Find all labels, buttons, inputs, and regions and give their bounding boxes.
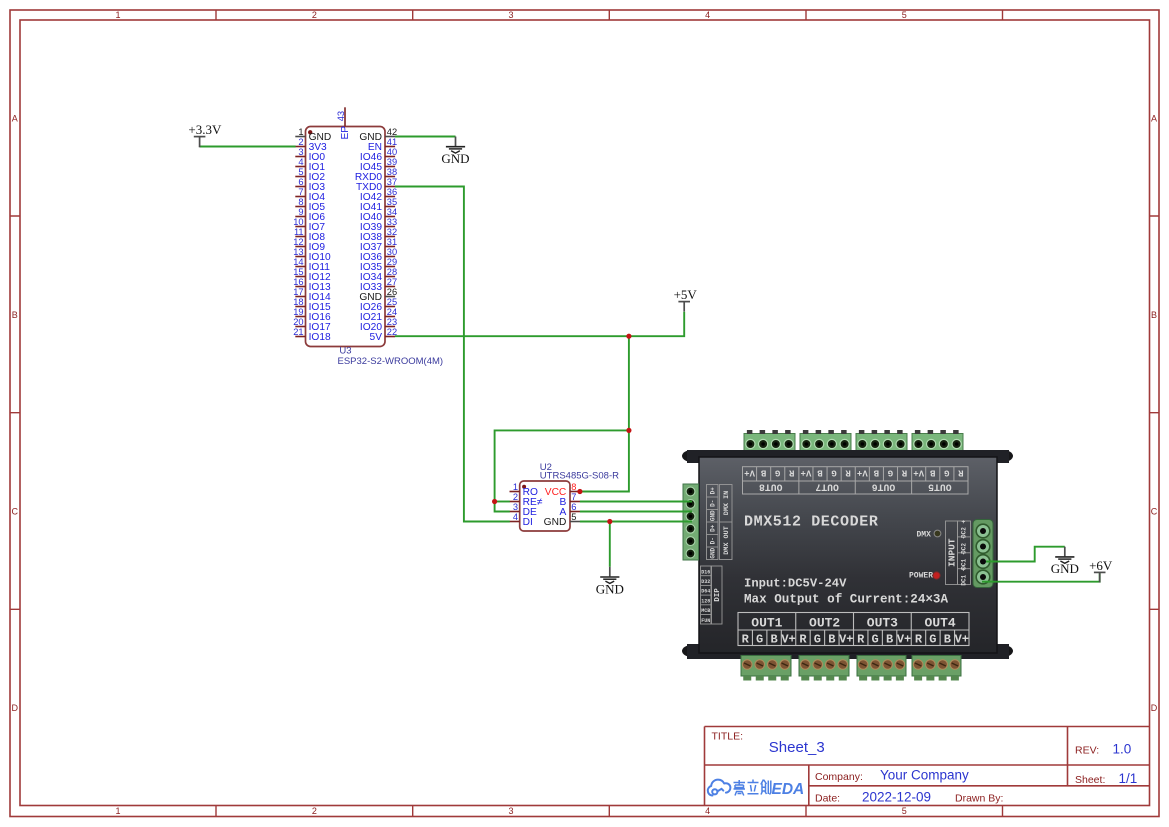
svg-text:OUT6: OUT6 <box>872 481 896 492</box>
svg-text:10: 10 <box>293 217 303 227</box>
svg-text:34: 34 <box>387 207 397 217</box>
svg-text:D16: D16 <box>701 569 710 575</box>
power flag +5V <box>674 287 698 312</box>
svg-text:GND: GND <box>544 517 567 528</box>
svg-text:R: R <box>799 633 807 647</box>
U2 pin 7 (B) <box>560 492 581 508</box>
svg-text:FUN: FUN <box>701 618 710 624</box>
U3 pin 40 (IO46) <box>360 147 397 163</box>
svg-text:8: 8 <box>298 197 303 207</box>
svg-text:DMX OUT: DMX OUT <box>723 526 731 555</box>
svg-text:R: R <box>742 633 750 647</box>
U3 pin 33 (IO39) <box>360 217 397 233</box>
svg-text:R: R <box>901 468 907 478</box>
U3 pin 32 (IO38) <box>360 227 397 243</box>
decoder bottom flange <box>687 644 1009 659</box>
U3 pin-1 marker dot <box>308 130 312 134</box>
svg-text:GND: GND <box>709 510 716 521</box>
svg-text:Company:: Company: <box>815 771 863 783</box>
svg-text:B: B <box>828 633 835 647</box>
U3 pin 3 (IO0) <box>295 147 325 163</box>
svg-text:31: 31 <box>387 237 397 247</box>
U3 pin 10 (IO7) <box>293 217 325 233</box>
U3 pin 43 (EP) top pin <box>336 107 351 139</box>
U3 pin 20 (IO17) <box>293 317 331 333</box>
svg-text:Sheet_3: Sheet_3 <box>769 739 825 756</box>
ground symbol GND near U3 pin 42 <box>441 137 469 167</box>
svg-text:EP: EP <box>340 126 351 140</box>
decoder DMX pin labels column <box>707 485 733 560</box>
svg-text:DMX512 DECODER: DMX512 DECODER <box>744 514 878 531</box>
svg-text:C: C <box>1151 507 1158 517</box>
svg-text:1: 1 <box>298 127 303 137</box>
svg-text:41: 41 <box>387 137 397 147</box>
svg-text:OUT2: OUT2 <box>809 616 840 631</box>
U3 pin 8 (IO5) <box>295 197 325 213</box>
svg-text:5: 5 <box>298 167 303 177</box>
svg-text:13: 13 <box>293 247 303 257</box>
svg-text:2: 2 <box>298 137 303 147</box>
U3 pin 15 (IO12) <box>293 267 331 283</box>
U3 pin 1 (GND) <box>295 127 331 143</box>
U2 pin 1 (RO) <box>510 482 538 498</box>
junction GND line <box>607 519 612 524</box>
U3 pin 29 (IO35) <box>360 257 397 273</box>
junction at U2 pin 8 <box>577 489 582 494</box>
svg-text:15: 15 <box>293 267 303 277</box>
U3 pin 37 (TXD0) <box>356 177 397 193</box>
svg-text:DC1 -: DC1 - <box>961 552 968 570</box>
svg-text:1: 1 <box>115 10 120 20</box>
U3 pin 7 (IO4) <box>295 187 325 203</box>
svg-text:GND: GND <box>596 581 624 596</box>
wire +3.3V to U3 pin 2 <box>200 146 296 148</box>
wire decoder DC1+ terminal to +6V flag <box>982 572 1100 581</box>
U3 pin 14 (IO11) <box>293 257 330 273</box>
svg-text:26: 26 <box>387 287 397 297</box>
svg-text:V+: V+ <box>839 633 853 647</box>
svg-text:V+: V+ <box>801 468 812 478</box>
svg-text:B: B <box>817 468 823 478</box>
U2 pin 2 (RE≠) <box>510 492 543 508</box>
decoder DMX IN/OUT terminal block <box>683 484 699 560</box>
svg-text:MCB: MCB <box>701 608 710 614</box>
svg-text:12: 12 <box>293 237 303 247</box>
svg-text:U3: U3 <box>339 346 351 357</box>
wire U2 B pin 7 to DMX IN terminal <box>580 501 692 503</box>
svg-text:G: G <box>775 468 780 478</box>
svg-text:V+: V+ <box>955 633 969 647</box>
svg-text:6: 6 <box>298 177 303 187</box>
svg-text:DIP: DIP <box>714 588 722 602</box>
U2 pin 8 (VCC) <box>545 482 580 498</box>
svg-text:OUT5: OUT5 <box>928 481 952 492</box>
U3 pin 11 (IO8) <box>294 227 325 243</box>
svg-text:DMX: DMX <box>917 531 932 540</box>
svg-text:POWER: POWER <box>909 572 933 581</box>
svg-text:2: 2 <box>312 806 317 816</box>
decoder DIP switch label column <box>701 566 723 624</box>
svg-text:18: 18 <box>293 297 303 307</box>
JLCEDA logo <box>708 780 731 796</box>
svg-text:G: G <box>888 468 893 478</box>
svg-text:Date:: Date: <box>815 793 840 805</box>
svg-text:1: 1 <box>115 806 120 816</box>
svg-text:EDA: EDA <box>772 781 805 798</box>
op-amp U3 ESP32-S2-WROOM(4M) symbol body <box>306 127 386 347</box>
svg-text:UTRS485G-S08-R: UTRS485G-S08-R <box>540 471 619 482</box>
svg-text:1/1: 1/1 <box>1119 771 1138 786</box>
ground symbol GND below U2 <box>596 567 624 597</box>
U2 pin 3 (DE) <box>510 502 537 518</box>
svg-text:REV:: REV: <box>1075 745 1099 757</box>
svg-text:GND: GND <box>1051 561 1079 576</box>
svg-text:B: B <box>770 633 777 647</box>
U3 pin 41 (EN) <box>368 137 397 153</box>
svg-text:1: 1 <box>513 482 518 492</box>
U3 pin 27 (IO33) <box>360 277 397 293</box>
svg-text:IO18: IO18 <box>309 332 331 343</box>
svg-text:DC1 +: DC1 + <box>961 567 968 585</box>
svg-text:R: R <box>958 468 964 478</box>
U3 pin 38 (RXD0) <box>355 167 397 183</box>
svg-text:D: D <box>1151 703 1158 713</box>
svg-text:30: 30 <box>387 247 397 257</box>
decoder top terminal blocks <box>744 434 795 455</box>
svg-text:B: B <box>12 310 18 320</box>
U3 pin 21 (IO18) <box>293 327 331 343</box>
svg-text:14: 14 <box>293 257 303 267</box>
svg-text:D-: D- <box>709 500 716 507</box>
svg-text:37: 37 <box>387 177 397 187</box>
svg-text:43: 43 <box>336 111 346 121</box>
wire 5V branch to U2 RE/DE pins <box>495 430 629 511</box>
svg-text:5: 5 <box>902 806 907 816</box>
U3 pin 2 (3V3) <box>295 137 327 153</box>
svg-text:5V: 5V <box>370 332 383 343</box>
power flag +6V <box>1089 558 1113 583</box>
svg-text:4: 4 <box>298 157 303 167</box>
U3 pin 26 (GND) <box>359 287 397 303</box>
svg-text:39: 39 <box>387 157 397 167</box>
svg-text:OUT3: OUT3 <box>867 616 898 631</box>
svg-text:24: 24 <box>387 307 397 317</box>
svg-text:OUT7: OUT7 <box>815 481 839 492</box>
wire 5V junction down to U2 VCC pin 8 <box>580 336 629 491</box>
svg-text:4: 4 <box>513 512 518 522</box>
U3 pin 6 (IO3) <box>295 177 325 193</box>
U2 pin 6 (A) <box>560 502 581 518</box>
decoder top flange <box>687 450 1009 463</box>
U3 pin 23 (IO20) <box>360 317 397 333</box>
svg-text:V+: V+ <box>781 633 795 647</box>
U3 pin 13 (IO10) <box>293 247 331 263</box>
svg-text:36: 36 <box>387 187 397 197</box>
svg-text:27: 27 <box>387 277 397 287</box>
U3 pin 9 (IO6) <box>295 207 325 223</box>
U3 pin 42 (GND) <box>359 127 397 143</box>
svg-text:R: R <box>845 468 851 478</box>
svg-text:+3.3V: +3.3V <box>188 122 222 137</box>
svg-text:INPUT: INPUT <box>947 538 958 567</box>
wire branch to U2 RE pin 2 <box>495 501 510 503</box>
svg-text:Input:DC5V-24V: Input:DC5V-24V <box>744 577 847 591</box>
svg-text:4: 4 <box>705 806 710 816</box>
svg-text:33: 33 <box>387 217 397 227</box>
U3 pin 22 (5V) <box>370 327 398 343</box>
wire GND branch below U2 <box>609 522 611 567</box>
svg-text:3: 3 <box>298 147 303 157</box>
svg-text:21: 21 <box>293 327 303 337</box>
svg-text:V+: V+ <box>913 468 924 478</box>
svg-text:38: 38 <box>387 167 397 177</box>
title block <box>705 727 1150 806</box>
U3 pin 39 (IO45) <box>360 157 397 173</box>
svg-text:OUT1: OUT1 <box>751 616 782 631</box>
svg-text:35: 35 <box>387 197 397 207</box>
svg-text:B: B <box>886 633 893 647</box>
svg-text:G: G <box>756 633 763 647</box>
svg-text:OUT8: OUT8 <box>759 481 783 492</box>
svg-text:DC2 +: DC2 + <box>961 520 968 538</box>
U3 pin 31 (IO37) <box>360 237 397 253</box>
svg-text:5: 5 <box>571 512 576 522</box>
svg-text:Max Output of Current:24×3A: Max Output of Current:24×3A <box>744 593 948 607</box>
U3 pin 25 (IO26) <box>360 297 397 313</box>
svg-text:3: 3 <box>508 806 513 816</box>
svg-text:B: B <box>873 468 879 478</box>
wire U2 GND pin 5 to DMX IN terminal <box>580 521 692 523</box>
decoder OUT1-4 label grid <box>738 613 969 646</box>
U3 pin 35 (IO41) <box>360 197 397 213</box>
svg-text:G: G <box>814 633 821 647</box>
svg-text:128: 128 <box>701 598 710 604</box>
svg-text:32: 32 <box>387 227 397 237</box>
U3 pin 12 (IO9) <box>293 237 325 253</box>
svg-text:A: A <box>12 114 18 124</box>
U2 pin 5 (GND) <box>544 512 581 528</box>
svg-text:R: R <box>915 633 923 647</box>
ground symbol GND near decoder input <box>1051 547 1079 577</box>
svg-text:B: B <box>1151 310 1157 320</box>
svg-text:TITLE:: TITLE: <box>712 731 744 743</box>
svg-text:23: 23 <box>387 317 397 327</box>
svg-text:11: 11 <box>294 227 304 237</box>
svg-text:2: 2 <box>312 10 317 20</box>
svg-text:B: B <box>760 468 766 478</box>
svg-text:G: G <box>872 633 879 647</box>
svg-text:42: 42 <box>387 127 397 137</box>
svg-text:19: 19 <box>293 307 303 317</box>
U2 pin-1 marker dot <box>522 485 526 489</box>
svg-text:V+: V+ <box>897 633 911 647</box>
U3 pin 5 (IO2) <box>295 167 325 183</box>
junction VCC branch <box>626 428 631 433</box>
svg-text:Sheet:: Sheet: <box>1075 774 1105 786</box>
svg-text:4: 4 <box>705 10 710 20</box>
power flag +3.3V <box>188 122 222 147</box>
svg-text:C: C <box>12 507 19 517</box>
wire decoder DC1- terminal to GND flag <box>986 547 1065 562</box>
svg-text:+6V: +6V <box>1089 558 1113 573</box>
svg-text:DMX IN: DMX IN <box>723 491 731 515</box>
wire U3 pin 42 to GND <box>395 136 456 138</box>
wire U3 5V pin 22 to +5V flag <box>395 312 684 336</box>
svg-text:ESP32-S2-WROOM(4M): ESP32-S2-WROOM(4M) <box>338 356 444 367</box>
svg-text:29: 29 <box>387 257 397 267</box>
U3 pin 36 (IO42) <box>360 187 397 203</box>
decoder INPUT label column <box>946 521 971 585</box>
U3 pin 4 (IO1) <box>295 157 325 173</box>
decoder input round terminals <box>973 520 993 588</box>
svg-text:D: D <box>12 703 19 713</box>
decoder main body <box>699 457 997 653</box>
svg-text:R: R <box>857 633 865 647</box>
svg-text:GND: GND <box>441 151 469 166</box>
svg-text:DI: DI <box>523 517 533 528</box>
svg-text:20: 20 <box>293 317 303 327</box>
U2 pin 4 (DI) <box>510 512 533 528</box>
U3 pin 18 (IO15) <box>293 297 331 313</box>
svg-text:A: A <box>1151 114 1157 124</box>
junction 5V line <box>626 334 631 339</box>
svg-text:2: 2 <box>513 492 518 502</box>
svg-text:8: 8 <box>571 482 576 492</box>
op-amp U2 UTRS485G-S08-R symbol body <box>520 481 570 531</box>
svg-text:D64: D64 <box>701 589 710 595</box>
svg-text:Drawn By:: Drawn By: <box>955 793 1003 805</box>
svg-text:17: 17 <box>293 287 303 297</box>
U3 pin 24 (IO21) <box>360 307 397 323</box>
junction at U2 pin 2 <box>492 499 497 504</box>
U3 pin 19 (IO16) <box>293 307 331 323</box>
wire U2 A pin 6 to DMX IN terminal <box>580 511 692 513</box>
svg-text:2022-12-09: 2022-12-09 <box>862 790 931 805</box>
U3 pin 16 (IO13) <box>293 277 331 293</box>
U3 pin 17 (IO14) <box>293 287 331 303</box>
svg-text:3: 3 <box>508 10 513 20</box>
svg-text:V+: V+ <box>744 468 755 478</box>
U3 pin 34 (IO40) <box>360 207 397 223</box>
svg-text:B: B <box>944 633 951 647</box>
svg-text:G: G <box>831 468 836 478</box>
svg-text:DC2 -: DC2 - <box>961 536 968 554</box>
svg-text:GND: GND <box>709 547 716 558</box>
svg-text:16: 16 <box>293 277 303 287</box>
svg-text:9: 9 <box>298 207 303 217</box>
svg-text:B: B <box>929 468 935 478</box>
svg-text:7: 7 <box>571 492 576 502</box>
svg-text:6: 6 <box>571 502 576 512</box>
svg-text:V+: V+ <box>857 468 868 478</box>
svg-text:D32: D32 <box>701 579 710 585</box>
svg-text:+5V: +5V <box>674 287 698 302</box>
decoder mounting ears <box>682 450 702 462</box>
svg-text:OUT4: OUT4 <box>925 616 956 631</box>
svg-text:G: G <box>944 468 949 478</box>
svg-text:25: 25 <box>387 297 397 307</box>
svg-text:3: 3 <box>513 502 518 512</box>
svg-text:28: 28 <box>387 267 397 277</box>
svg-text:7: 7 <box>298 187 303 197</box>
svg-text:D+: D+ <box>709 524 716 532</box>
svg-text:R: R <box>789 468 795 478</box>
svg-text:Your Company: Your Company <box>880 767 969 782</box>
svg-text:D+: D+ <box>709 487 716 495</box>
svg-text:1.0: 1.0 <box>1113 742 1132 757</box>
svg-text:G: G <box>929 633 936 647</box>
svg-text:5: 5 <box>902 10 907 20</box>
svg-text:40: 40 <box>387 147 397 157</box>
wire U3 TXD0 pin 37 to U2 DI pin 4 <box>395 187 510 522</box>
decoder bottom terminal blocks <box>741 656 791 677</box>
U3 pin 30 (IO36) <box>360 247 397 263</box>
U3 pin 28 (IO34) <box>360 267 397 283</box>
decoder top OUT5-8 label grid <box>743 467 969 494</box>
svg-text:D-: D- <box>709 537 716 544</box>
